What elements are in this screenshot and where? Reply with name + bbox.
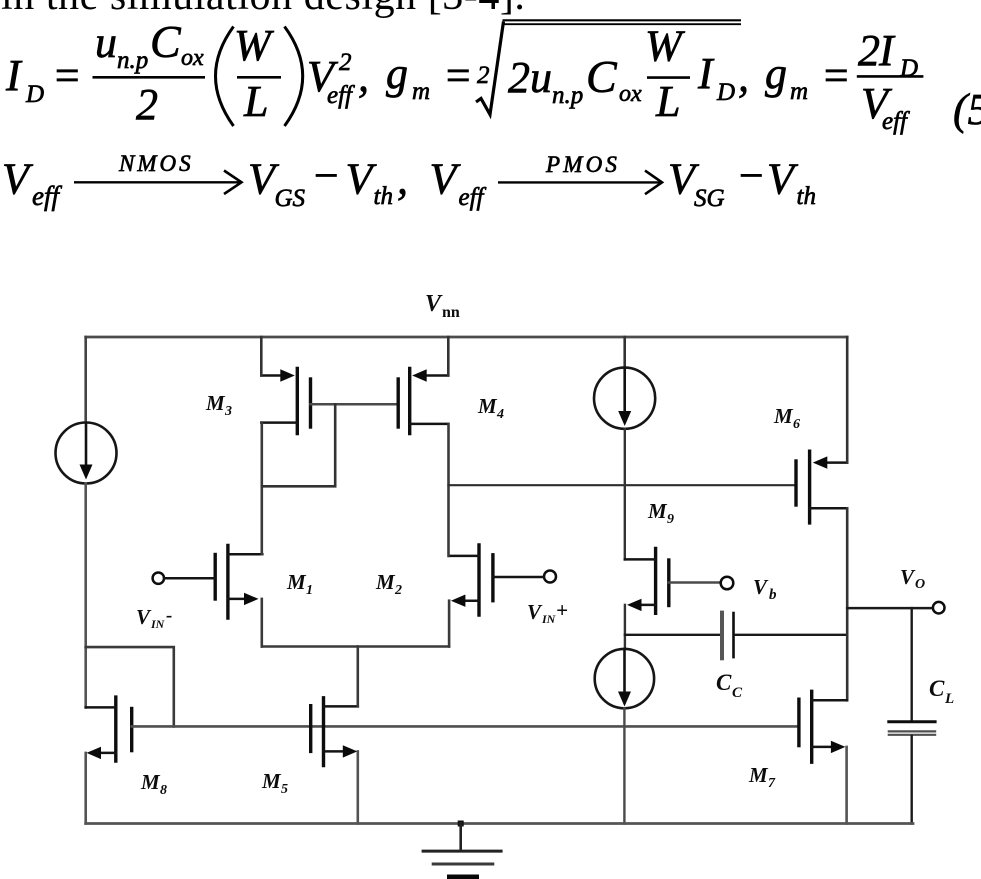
wire: M3 diode connection <box>262 404 335 486</box>
current source IB2 (top middle) <box>594 368 655 429</box>
transistor M6 <box>796 451 847 523</box>
svg-text:M: M <box>773 404 794 428</box>
svg-text:7: 7 <box>768 776 776 791</box>
equation block (5) as SVG <box>0 0 981 230</box>
wire: gate bus M8/M5/M7 <box>132 725 799 728</box>
svg-text:V: V <box>425 291 443 317</box>
svg-text:5: 5 <box>281 782 288 797</box>
svg-text:M: M <box>477 394 498 418</box>
svg-text:IN: IN <box>541 612 557 626</box>
svg-text:nn: nn <box>442 304 460 321</box>
ground symbol <box>423 821 501 879</box>
wire: output node to VO terminal <box>847 607 933 610</box>
node Vnn label <box>425 291 460 321</box>
wire: M5 drain up to diff tail <box>356 647 359 707</box>
wire: IB1 output down to M8 drain <box>84 484 87 708</box>
label M9 <box>647 499 674 527</box>
wire: bottom ground rail <box>86 822 913 825</box>
wire: M7 source to ground rail <box>845 747 848 824</box>
label M2 <box>375 570 402 598</box>
svg-text:9: 9 <box>667 512 674 527</box>
transistor M5 <box>311 698 358 766</box>
wire: CC to output column <box>735 634 847 636</box>
svg-text:C: C <box>732 685 743 701</box>
label M6 <box>773 404 800 432</box>
svg-text:-: - <box>166 605 172 626</box>
wire: M9 source node to capacitor CC <box>625 634 720 636</box>
input terminal VIN+ <box>493 571 556 583</box>
wire: diff pair common source line <box>262 645 449 648</box>
wire: M9 source node down to IB3 <box>624 605 626 649</box>
label VO <box>900 565 925 592</box>
wire: node A branch (IB1 to mirror gate bus) <box>86 647 174 726</box>
svg-text:M: M <box>261 769 282 793</box>
svg-text:+: + <box>556 598 568 622</box>
wire: Vnn top rail <box>86 336 848 339</box>
transistor M3 <box>261 369 310 434</box>
label M3 <box>205 391 232 419</box>
top cropped paragraph text <box>1 0 525 20</box>
transistor M7 <box>799 691 847 762</box>
wire: M6 source to Vnn rail <box>846 337 849 463</box>
transistor M8 <box>86 697 132 761</box>
label VIN- <box>136 605 172 631</box>
svg-text:M: M <box>286 570 307 594</box>
label M8 <box>140 770 167 798</box>
wire: M5 source to ground rail <box>356 751 359 823</box>
label M1 <box>286 570 313 598</box>
current source IB3 (lower middle) <box>595 649 654 708</box>
svg-text:M: M <box>375 570 396 594</box>
svg-text:2: 2 <box>394 583 402 598</box>
transistor M2 <box>449 545 493 615</box>
svg-text:L: L <box>944 691 954 707</box>
svg-text:1: 1 <box>306 583 313 598</box>
label M5 <box>261 769 288 797</box>
wire: M4 drain column down to M2 drain <box>447 424 450 556</box>
svg-text:IN: IN <box>150 617 166 631</box>
svg-text:M: M <box>205 391 226 415</box>
svg-text:4: 4 <box>496 407 504 422</box>
capacitor CL <box>889 608 935 823</box>
label VIN+ <box>527 598 568 626</box>
transistor M9 <box>625 548 669 613</box>
wire: M4 source to Vnn rail <box>447 337 450 376</box>
svg-text:O: O <box>915 577 925 592</box>
wire: M6 drain to output node and M7 drain <box>846 508 849 700</box>
wire: IB3 to ground rail <box>623 708 625 823</box>
wire: M3 source to Vnn rail <box>260 337 263 376</box>
svg-text:3: 3 <box>224 404 232 419</box>
current source IB1 (left bias) <box>56 423 117 484</box>
svg-text:V: V <box>527 600 543 624</box>
wire: IB2 output down to M9 drain <box>624 429 626 560</box>
svg-text:M: M <box>748 763 769 787</box>
wire: M3 drain column down to M1 drain <box>260 423 263 555</box>
wire: M1 source down to common line <box>260 599 263 647</box>
label CC <box>716 670 743 701</box>
svg-text:C: C <box>929 676 945 701</box>
wire: first stage output to M6 gate <box>449 484 797 486</box>
svg-text:C: C <box>716 670 732 695</box>
transistor M1 <box>215 545 262 618</box>
label M4 <box>477 394 504 422</box>
bias terminal Vb <box>669 577 734 590</box>
svg-text:M: M <box>647 499 668 523</box>
wire: left rail from Vnn to current source <box>84 337 87 423</box>
svg-text:b: b <box>769 587 777 603</box>
wire: M8 source to ground rail <box>84 753 87 824</box>
svg-text:V: V <box>900 565 916 589</box>
svg-text:M: M <box>140 770 161 794</box>
svg-text:8: 8 <box>160 783 167 798</box>
capacitor CC <box>722 613 734 659</box>
label Vb <box>753 575 777 603</box>
svg-text:V: V <box>136 605 152 629</box>
wire: M3 gate to M4 gate <box>311 403 399 406</box>
label M7 <box>748 763 776 791</box>
wire: M2 source down to common line <box>448 601 451 647</box>
svg-text:6: 6 <box>793 417 800 432</box>
svg-text:V: V <box>753 575 769 599</box>
wire: Vnn rail to current source IB2 <box>623 337 626 368</box>
output terminal VO <box>933 602 945 614</box>
label CL <box>929 676 954 707</box>
transistor M4 <box>398 369 448 434</box>
input terminal VIN- <box>153 573 216 584</box>
